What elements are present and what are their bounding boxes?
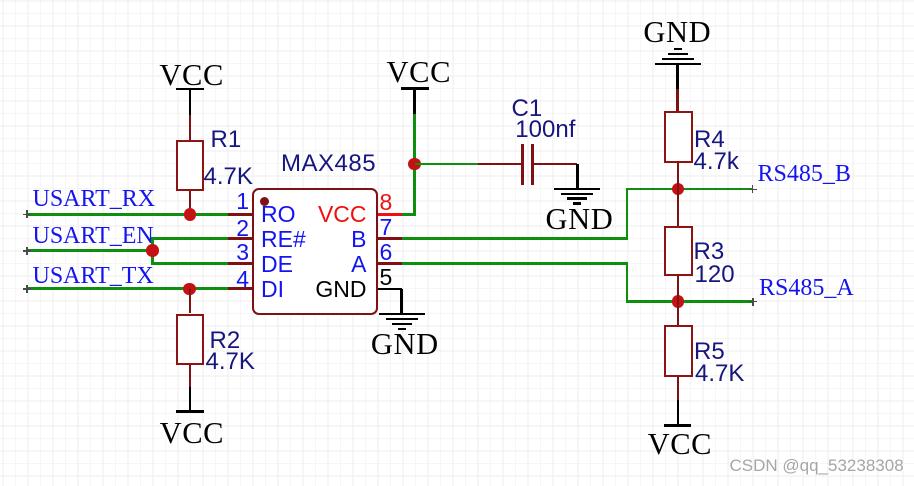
wire (RS485_B to R3) [677, 189, 680, 226]
pin 1 stub wire [228, 213, 254, 216]
junction (USART_TX / R2) [183, 283, 196, 296]
power flag VCC (top middle) [387, 57, 452, 88]
wire (pin 7 B net) [378, 237, 402, 240]
label 4.7K (R2 value) [206, 350, 255, 374]
pin name RE# [261, 228, 306, 251]
wire (GND to R4) [676, 89, 679, 111]
wire to pin 2 [151, 237, 228, 240]
resistor R2 [176, 314, 204, 365]
label 120 (R3 value) [695, 263, 735, 287]
junction (RS485_A / R3 / R5) [672, 295, 685, 308]
junction (RS485_B / R4 / R3) [672, 183, 685, 196]
wire (R3 to RS485_A) [677, 276, 680, 302]
wire USART_TX horizontal [27, 287, 228, 290]
label R2 [210, 329, 241, 353]
wire RS485_A horizontal [626, 300, 754, 303]
label MAX485 [281, 152, 376, 176]
label 4.7k (R4 value) [694, 150, 739, 174]
wire (VCC flag down) [413, 114, 416, 164]
power flag VCC (bottom left) [189, 387, 192, 411]
wire (pin 6 A net) [378, 262, 402, 265]
ground GND (top right) [643, 17, 711, 48]
pin number 5 [380, 266, 393, 289]
wire (RS485_A to R5) [677, 302, 680, 326]
net label USART_EN [33, 224, 154, 248]
wire USART_EN horizontal [27, 249, 153, 252]
wire USART_RX horizontal [27, 213, 228, 216]
ground GND (below pin 5) [379, 313, 425, 316]
pin name B [280, 228, 367, 251]
ground GND (right of C1) [576, 164, 579, 188]
wire end marker (USART_TX) [23, 288, 31, 290]
wire end marker (RS485_B) [749, 189, 757, 191]
net label USART_RX [33, 187, 156, 211]
pin 8 stub wire [378, 213, 402, 216]
wire (R4 to RS485_B) [677, 163, 680, 189]
wire USART_EN vertical [151, 237, 154, 265]
pin number 2 [227, 217, 249, 240]
pin name A [280, 253, 367, 276]
resistor R1 [176, 140, 204, 191]
label R3 [694, 240, 725, 264]
pin 5 stub wire [378, 288, 402, 291]
net label RS485_B [758, 162, 851, 186]
pin 2 stub wire [228, 237, 254, 240]
wire (pin 8 to VCC) [402, 213, 416, 216]
wire (USART_TX to R2) [189, 289, 192, 314]
op-amp U1 body MAX485 [252, 188, 378, 315]
pin number 6 [380, 241, 393, 264]
pin number 7 [380, 216, 393, 239]
wire (pin 5 to GND) [400, 289, 403, 313]
junction (VCC / C1) [408, 158, 421, 171]
label R5 [694, 340, 725, 364]
pin name DE [261, 253, 293, 276]
resistor R3 [664, 226, 693, 276]
wire (VCC flag to R1) [189, 115, 192, 140]
capacitor C1 [478, 163, 521, 166]
resistor R5 [664, 325, 693, 377]
wire end marker (USART_RX) [23, 214, 31, 216]
pin 1 indicator dot [260, 197, 269, 206]
wire to pin 3 [151, 262, 228, 265]
pin number 3 [227, 241, 249, 264]
wire end marker (USART_EN) [23, 250, 31, 252]
label C1 [512, 97, 543, 121]
wire RS485_B horizontal [626, 188, 753, 191]
pin number 8 [380, 191, 393, 214]
wire (junction to C1) [415, 163, 479, 166]
pin number 4 [227, 268, 249, 291]
pin name DI [261, 278, 284, 301]
label R4 [694, 128, 725, 152]
pin name GND [280, 278, 367, 301]
junction (USART_RX / R1) [184, 208, 197, 221]
label 4.7K (R1 value) [204, 165, 253, 189]
pin 4 stub wire [228, 287, 254, 290]
wire end marker (RS485_A) [749, 301, 757, 303]
pin name RO [261, 203, 296, 226]
label 100nf (C1 value) [515, 118, 575, 142]
watermark [730, 457, 904, 474]
wire (R5 to VCC flag) [677, 377, 680, 400]
power flag VCC (bottom right) [677, 400, 680, 426]
wire (R1 to USART_RX net) [189, 191, 192, 215]
pin name VCC [280, 203, 367, 226]
resistor R4 [664, 111, 693, 164]
net label RS485_A [759, 276, 854, 300]
wire (R2 to VCC flag) [189, 365, 192, 388]
pin 3 stub wire [228, 262, 254, 265]
pin number 1 [227, 190, 249, 213]
label 4.7K (R5 value) [695, 362, 744, 386]
power flag VCC (top left, net VCC) [159, 60, 224, 91]
label R1 [211, 128, 242, 152]
junction (USART_EN) [146, 244, 159, 257]
net label USART_TX [33, 264, 154, 288]
